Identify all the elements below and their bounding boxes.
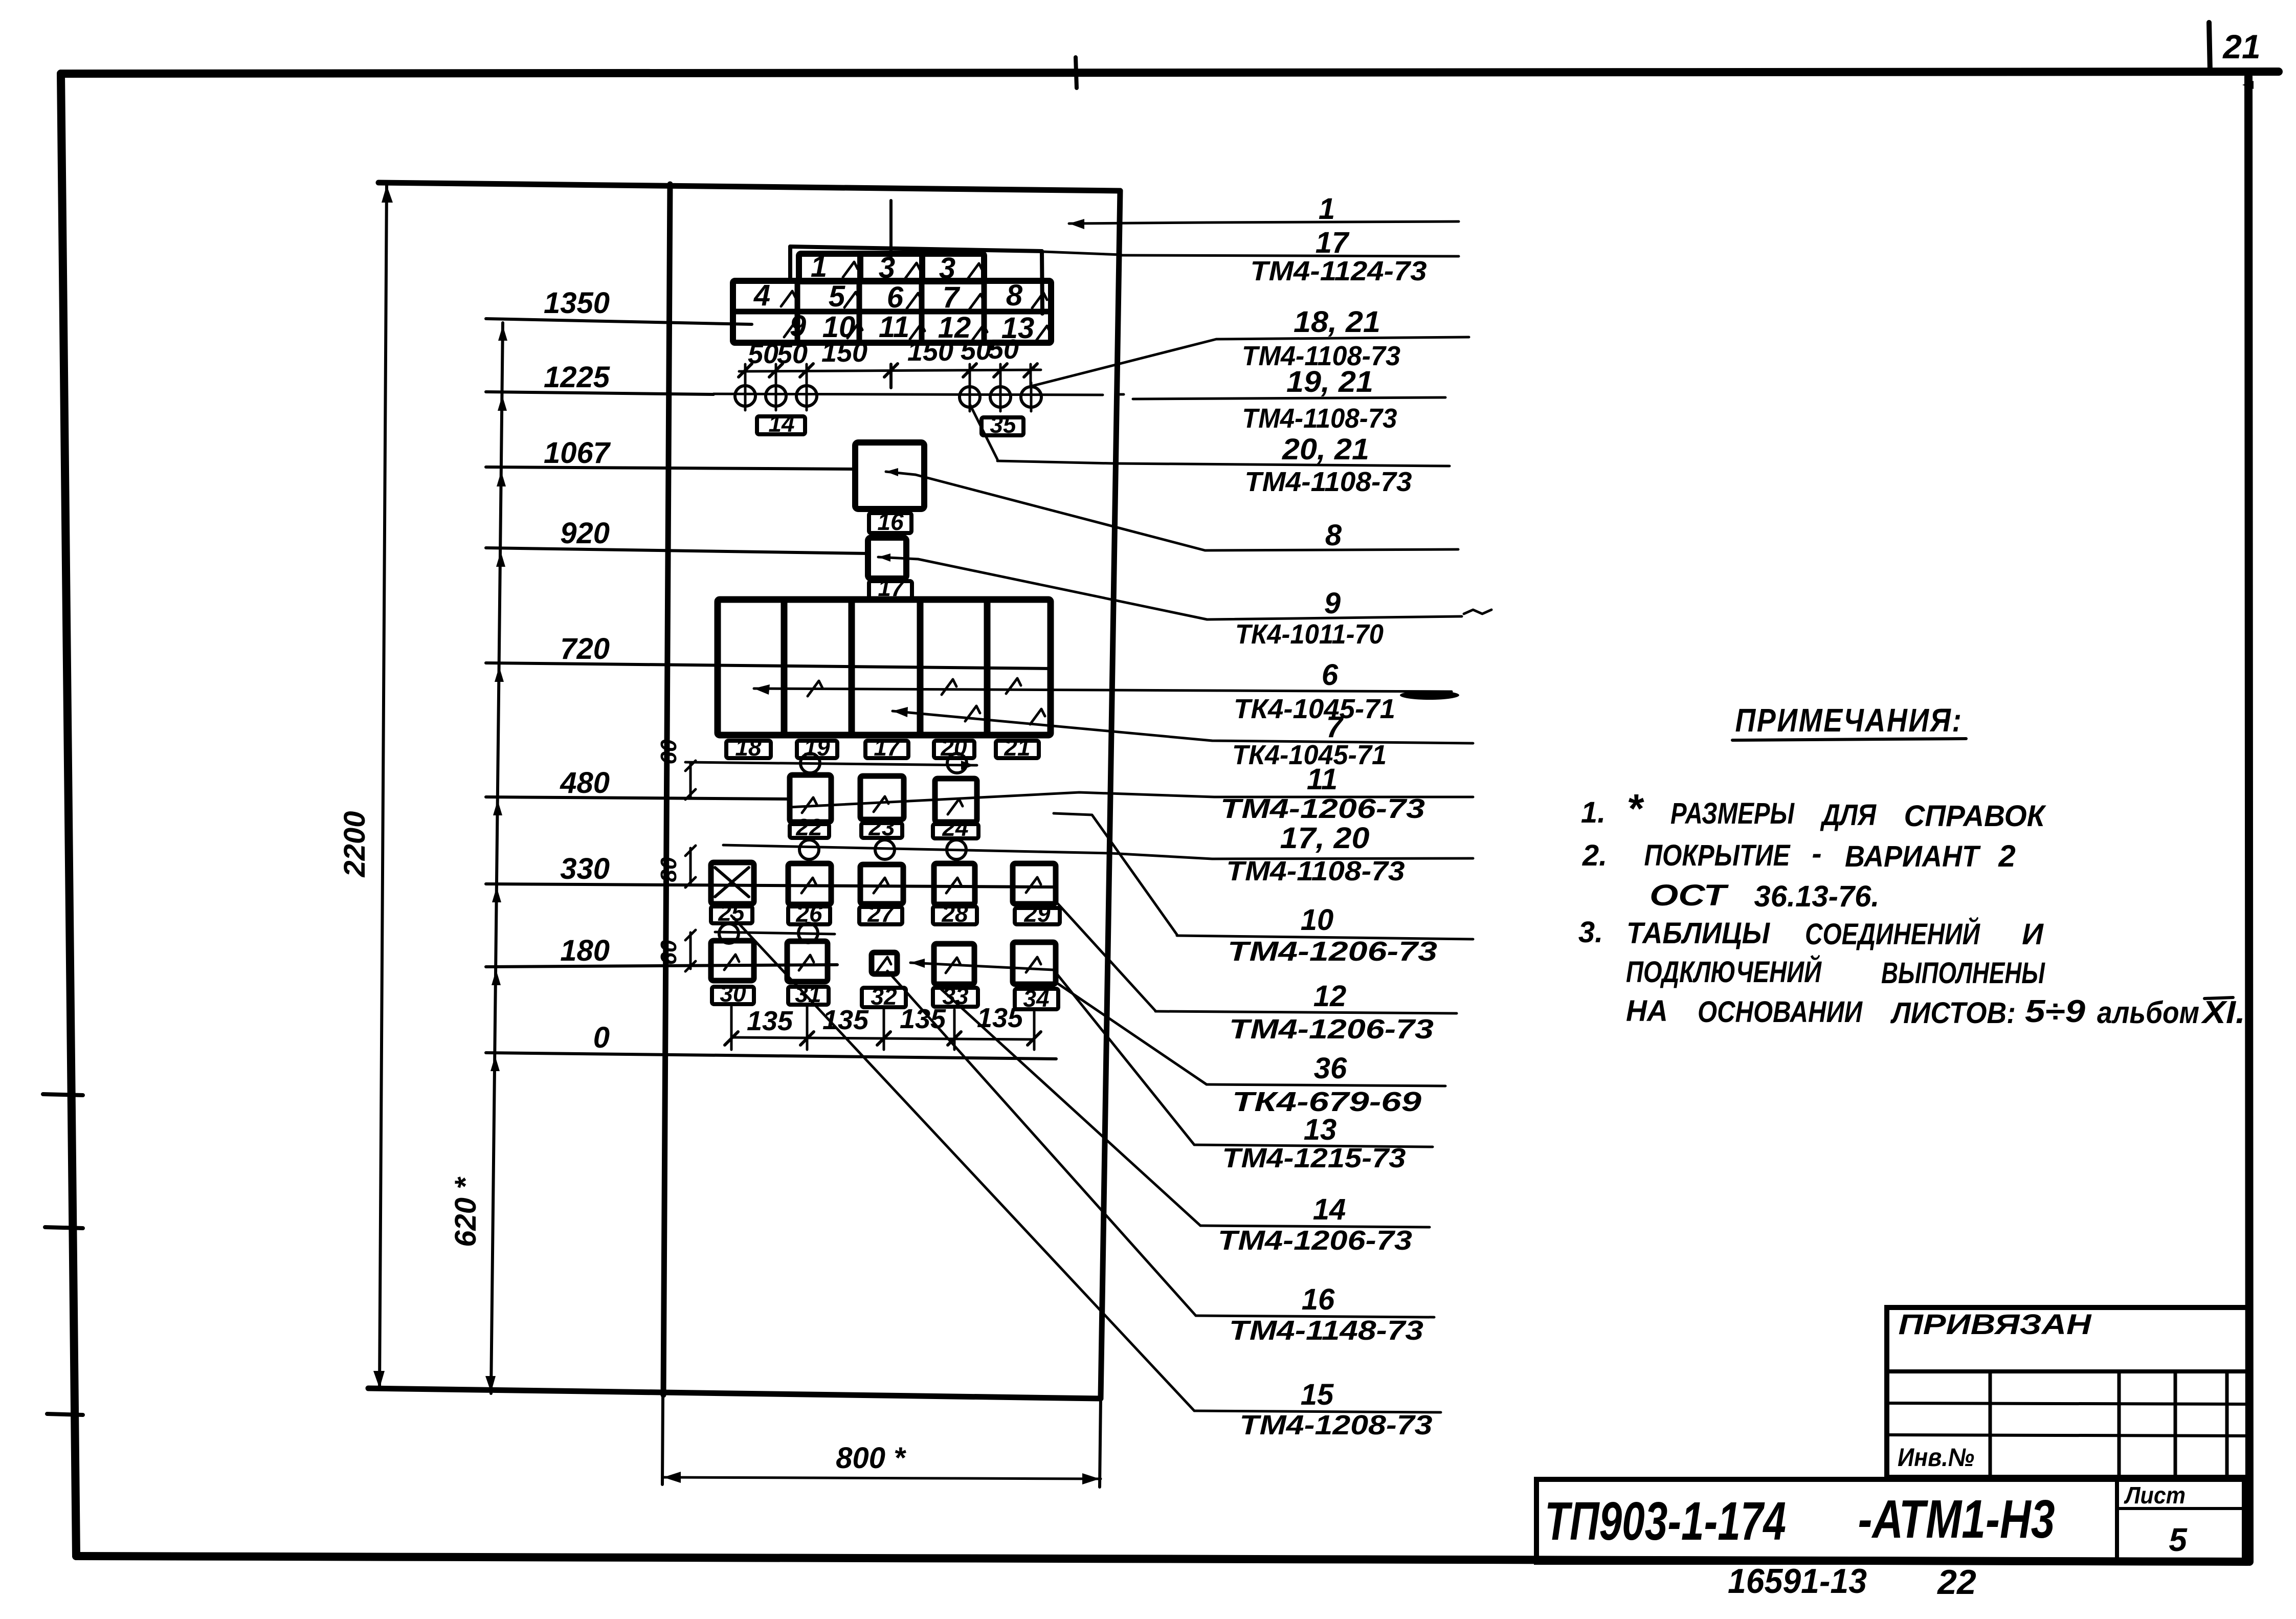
svg-text:11: 11 [1307, 763, 1338, 796]
level line 720 [486, 663, 1051, 669]
svg-text:36.13-76.: 36.13-76. [1754, 880, 1880, 913]
svg-text:ДЛЯ: ДЛЯ [1820, 799, 1877, 832]
svg-text:ТМ4-1206-73: ТМ4-1206-73 [1228, 936, 1437, 967]
item box 16 [869, 513, 911, 533]
apparatus block 23 [860, 776, 904, 819]
leader for pos 8 [916, 475, 1205, 550]
leader for pos 18 21 [1029, 339, 1216, 387]
svg-text:620 *: 620 * [449, 1177, 482, 1247]
leader for pos 7 [893, 711, 1473, 743]
overline on XI [2204, 997, 2233, 999]
svg-text:10: 10 [1301, 903, 1334, 937]
svg-text:ТП903-1-174: ТП903-1-174 [1545, 1491, 1786, 1551]
item boxes 18 19 17 20 21 [726, 741, 771, 758]
svg-text:12: 12 [1313, 980, 1347, 1013]
leader for pos 36 [1056, 982, 1207, 1084]
leader for pos 12 [1056, 901, 1155, 1011]
svg-text:13: 13 [1304, 1113, 1337, 1146]
svg-text:60: 60 [656, 739, 681, 764]
squiggle mark near pos 9 [1464, 610, 1491, 614]
top sub-plate outline [790, 247, 1042, 251]
centerline below top block [889, 364, 893, 388]
line through top circles of row 22-24 [685, 762, 977, 765]
item box 31 [788, 987, 829, 1005]
ink smudge near pos 6 [1400, 691, 1459, 700]
svg-text:ВАРИАНТ: ВАРИАНТ [1845, 840, 1981, 873]
level line 330 [486, 884, 1056, 887]
panel right edge [1101, 191, 1120, 1398]
item box 23 [861, 823, 902, 838]
svg-text:3: 3 [879, 251, 895, 284]
svg-text:11: 11 [879, 311, 909, 344]
panel top edge with extension [378, 183, 1120, 191]
svg-text:1350: 1350 [544, 286, 610, 320]
apparatus block 30 [711, 941, 754, 981]
item box 26 [788, 906, 830, 924]
svg-text:альбом: альбом [2097, 995, 2199, 1030]
svg-text:800 *: 800 * [836, 1441, 906, 1475]
svg-text:22: 22 [795, 814, 822, 840]
svg-text:ТМ4-1108-73: ТМ4-1108-73 [1227, 856, 1405, 886]
svg-text:1.: 1. [1581, 796, 1606, 829]
svg-text:ТМ4-1206-73: ТМ4-1206-73 [1218, 1225, 1412, 1256]
sheet cell [2115, 1479, 2119, 1562]
sheet border frame [61, 72, 2279, 74]
panel right edge extension below [1100, 1399, 1101, 1487]
svg-text:3.: 3. [1578, 916, 1603, 949]
item box 25 [711, 906, 752, 923]
top tier box cells 1-3-3 [799, 254, 984, 281]
svg-text:5: 5 [829, 280, 845, 313]
svg-text:ОСТ: ОСТ [1649, 879, 1729, 912]
leader for pos 13 [910, 963, 1194, 1145]
left border fold tick 1 [43, 1094, 83, 1095]
apparatus block 29 [1013, 863, 1056, 904]
leader for pos 17 [1043, 252, 1121, 255]
svg-text:21: 21 [1004, 734, 1030, 761]
top block main two-row box cells 4-13 [733, 281, 1051, 343]
width dimension line 800 [662, 1477, 1101, 1479]
svg-text:НА: НА [1626, 994, 1668, 1028]
circles below blocks 22 23 24 [799, 840, 819, 859]
leader for pos 17 20 [723, 845, 1473, 859]
svg-text:28: 28 [941, 900, 968, 927]
svg-text:ТМ4-1108-73: ТМ4-1108-73 [1245, 467, 1412, 497]
svg-text:ПОКРЫТИЕ: ПОКРЫТИЕ [1644, 839, 1791, 872]
leader from hole to box 35 [970, 404, 997, 459]
item box 17 upper [869, 581, 912, 598]
svg-text:720: 720 [560, 632, 610, 666]
item box 24 [933, 824, 978, 838]
svg-text:4: 4 [753, 279, 770, 312]
svg-text:ТМ4-1215-73: ТМ4-1215-73 [1222, 1143, 1406, 1173]
square block for item 9 [868, 538, 906, 579]
item box 14 [757, 416, 805, 434]
leader for pos 1 [1069, 223, 1207, 224]
item box 28 [933, 906, 977, 924]
svg-text:31: 31 [795, 981, 821, 1007]
svg-text:-: - [1812, 837, 1821, 870]
item box 27 [859, 907, 902, 924]
leader for pos 16 [887, 971, 1196, 1316]
level line 1067 [486, 467, 855, 469]
svg-text:3: 3 [939, 252, 955, 285]
svg-text:2: 2 [1998, 839, 2015, 873]
svg-text:80: 80 [656, 857, 681, 882]
svg-text:-АТМ1-Н3: -АТМ1-Н3 [1858, 1489, 2055, 1549]
level line 480 [486, 797, 791, 799]
svg-text:8: 8 [1006, 279, 1023, 312]
svg-text:24: 24 [942, 814, 968, 841]
svg-text:ТАБЛИЦЫ: ТАБЛИЦЫ [1626, 917, 1770, 950]
svg-text:ТК4-679-69: ТК4-679-69 [1232, 1086, 1421, 1117]
apparatus block 33 [934, 944, 974, 984]
leader for pos 14 [934, 983, 1200, 1226]
svg-text:ТК4-1011-70: ТК4-1011-70 [1235, 619, 1384, 650]
svg-text:150: 150 [907, 336, 953, 367]
svg-text:*: * [1626, 786, 1644, 831]
svg-text:5÷9: 5÷9 [2025, 994, 2086, 1029]
level line 1225 [486, 392, 714, 394]
svg-text:18: 18 [735, 734, 762, 761]
svg-text:ПОДКЛЮЧЕНИЙ: ПОДКЛЮЧЕНИЙ [1626, 955, 1822, 989]
cell tick marks [843, 262, 858, 277]
svg-text:14: 14 [1313, 1193, 1346, 1226]
extension lines for 135 dimensions [730, 1007, 733, 1050]
svg-text:36: 36 [1314, 1052, 1347, 1085]
svg-text:Лист: Лист [2124, 1482, 2186, 1509]
svg-text:17: 17 [874, 734, 901, 761]
hole centerline [714, 394, 1103, 395]
svg-text:ТМ4-1124-73: ТМ4-1124-73 [1251, 256, 1427, 286]
svg-text:0: 0 [593, 1021, 610, 1054]
svg-text:РАЗМЕРЫ: РАЗМЕРЫ [1670, 797, 1795, 830]
apparatus block 34 [1013, 942, 1056, 984]
apparatus block 26 [788, 863, 831, 904]
dimension text 620* [449, 1177, 482, 1247]
svg-text:15: 15 [1301, 1378, 1334, 1411]
svg-text:60: 60 [656, 940, 681, 965]
svg-text:135: 135 [747, 1006, 793, 1036]
svg-text:1: 1 [1319, 192, 1335, 226]
panel left edge extension below [662, 1396, 663, 1484]
mounting hole circles left group [735, 386, 755, 406]
apparatus block 25 [711, 862, 754, 904]
svg-text:27: 27 [867, 900, 895, 927]
item box 30 [712, 987, 754, 1004]
apparatus block 28 [934, 863, 975, 904]
item box 32 [862, 988, 906, 1007]
svg-text:25: 25 [718, 899, 745, 926]
svg-text:ЛИСТОВ:: ЛИСТОВ: [1890, 996, 2016, 1030]
extension lines to holes [744, 364, 747, 385]
svg-text:Инв.№: Инв.№ [1898, 1443, 1974, 1472]
bracket dimension 60 upper [689, 763, 692, 797]
svg-text:7: 7 [1326, 711, 1344, 744]
dimension line 135 chain [731, 1037, 1034, 1039]
svg-text:ТК4-1045-71: ТК4-1045-71 [1234, 694, 1395, 724]
svg-text:18, 21: 18, 21 [1294, 305, 1380, 339]
leader and underline for pos 6 [754, 689, 1452, 692]
title block stamp table [1887, 1307, 2248, 1477]
svg-text:И: И [2022, 918, 2044, 951]
svg-text:ПРИМЕЧАНИЯ:: ПРИМЕЧАНИЯ: [1735, 702, 1963, 739]
top-right sheet number tick [2209, 23, 2210, 72]
svg-text:14: 14 [768, 410, 794, 437]
apparatus block 27 [860, 864, 903, 904]
item box 35 [982, 417, 1023, 435]
apparatus block 22 [790, 775, 831, 822]
five-cell instrument block [718, 600, 1051, 735]
hole dimension line [739, 370, 1041, 371]
svg-text:150: 150 [821, 337, 867, 368]
tick inside square 9 [878, 557, 918, 559]
svg-text:330: 330 [560, 852, 610, 885]
bracket dimension 80 [689, 848, 692, 885]
apparatus block 31 [787, 941, 828, 982]
svg-text:34: 34 [1023, 985, 1049, 1012]
svg-text:XI.: XI. [2201, 995, 2245, 1030]
line through circles 25 26 [715, 932, 835, 934]
svg-text:17: 17 [1316, 226, 1350, 259]
svg-text:ВЫПОЛНЕНЫ: ВЫПОЛНЕНЫ [1881, 957, 2045, 990]
svg-text:21: 21 [2222, 28, 2260, 65]
svg-text:ТМ4-1206-73: ТМ4-1206-73 [1229, 1014, 1434, 1045]
svg-text:32: 32 [871, 983, 897, 1010]
right border arrow mark [2242, 81, 2254, 89]
tick inside square 8 [886, 472, 916, 475]
item box 34 [1015, 989, 1058, 1009]
leader for pos 10 [1054, 813, 1177, 935]
centerline above top block [889, 201, 893, 258]
title strip box [1536, 1479, 2244, 1562]
svg-text:2200: 2200 [338, 811, 371, 877]
svg-text:ТМ4-1208-73: ТМ4-1208-73 [1240, 1410, 1433, 1440]
svg-text:20, 21: 20, 21 [1282, 433, 1369, 466]
apparatus block 24 [935, 779, 977, 822]
circles above blocks 22 24 [800, 753, 820, 773]
svg-text:ТМ4-1148-73: ТМ4-1148-73 [1229, 1315, 1423, 1346]
svg-text:35: 35 [990, 411, 1017, 438]
level line 1350 [486, 319, 752, 324]
svg-text:23: 23 [868, 814, 895, 840]
svg-text:1067: 1067 [544, 436, 611, 470]
panel left edge [663, 184, 670, 1395]
svg-text:180: 180 [560, 934, 610, 967]
svg-text:9: 9 [1324, 587, 1341, 620]
leader for pos 9 [918, 559, 1207, 619]
left border fold tick 2 [45, 1227, 83, 1228]
circles below blocks 25 26 [719, 924, 739, 943]
overall height dimension line 2200 [380, 184, 387, 1389]
svg-text:6: 6 [1322, 658, 1339, 692]
svg-text:ТМ4-1108-73: ТМ4-1108-73 [1242, 403, 1397, 434]
level line 180 [486, 965, 837, 967]
panel bottom edge with extension [368, 1388, 1101, 1399]
svg-text:16591-13: 16591-13 [1728, 1562, 1867, 1601]
svg-text:СОЕДИНЕНИЙ: СОЕДИНЕНИЙ [1805, 917, 1980, 951]
svg-text:17, 20: 17, 20 [1280, 822, 1370, 855]
svg-text:7: 7 [943, 281, 961, 314]
leader for pos 15 [731, 916, 1194, 1411]
mounting hole circles right group [960, 387, 980, 407]
svg-text:1: 1 [811, 250, 827, 283]
apparatus block 32 [872, 952, 897, 974]
svg-text:920: 920 [560, 517, 610, 550]
svg-text:50: 50 [988, 334, 1019, 365]
leader for pos 11 [790, 792, 1473, 807]
svg-text:480: 480 [560, 766, 610, 800]
dimension text 2200 [338, 811, 371, 877]
chain dimension line 620 [491, 323, 503, 1393]
leader for pos 20 21 [997, 461, 1115, 463]
svg-text:1225: 1225 [544, 361, 610, 394]
item box 29 [1015, 908, 1060, 924]
svg-text:16: 16 [877, 508, 904, 535]
svg-text:5: 5 [2169, 1521, 2188, 1558]
svg-text:ТМ4-1206-73: ТМ4-1206-73 [1220, 793, 1425, 824]
svg-text:ОСНОВАНИИ: ОСНОВАНИИ [1698, 995, 1863, 1029]
svg-text:8: 8 [1325, 519, 1342, 552]
svg-text:16: 16 [1302, 1283, 1335, 1316]
svg-text:29: 29 [1023, 900, 1051, 927]
svg-text:2.: 2. [1582, 839, 1607, 872]
level line 920 [486, 548, 868, 553]
top border centering tick [1076, 57, 1077, 88]
svg-text:33: 33 [942, 983, 969, 1009]
svg-text:ПРИВЯЗАН: ПРИВЯЗАН [1899, 1308, 2092, 1340]
svg-text:СПРАВОК: СПРАВОК [1904, 800, 2046, 833]
bracket dimension 60 lower [689, 933, 692, 969]
svg-text:50: 50 [961, 335, 991, 366]
item box 22 [790, 824, 829, 838]
square block for item 8 [855, 442, 924, 509]
item box 33 [933, 988, 978, 1007]
svg-text:6: 6 [887, 281, 904, 314]
svg-text:30: 30 [720, 980, 746, 1007]
svg-text:19, 21: 19, 21 [1286, 365, 1373, 398]
svg-text:22: 22 [1936, 1563, 1976, 1602]
level line 0 [486, 1053, 1056, 1059]
left border fold tick 3 [47, 1414, 83, 1415]
